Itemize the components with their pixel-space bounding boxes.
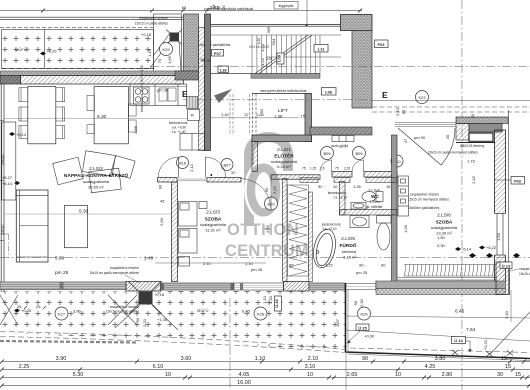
door leaf bedroom6 [398,128,441,165]
terrace top dashed edge [0,27,154,29]
svg-text:függönyfal: függönyfal [279,4,294,8]
svg-text:90: 90 [401,109,406,114]
svg-text:3.80: 3.80 [435,356,446,362]
room label WC [366,188,383,210]
box F03 [375,40,389,48]
room label SZOBA3 [200,210,227,233]
box L11 [314,45,328,53]
svg-text:16.00: 16.00 [237,380,251,386]
svg-text:R: R [191,113,194,118]
svg-text:90: 90 [318,184,323,189]
svg-text:osztó-gyűjtő: osztó-gyűjtő [331,144,348,148]
dim row 1 [2,361,530,363]
svg-text:10: 10 [165,372,171,378]
svg-text:1,10: 1,10 [245,261,254,266]
svg-text:-6,14: -6,14 [462,247,472,252]
door arc B10 bedroom3 [240,179,271,210]
kitchen counter top [130,84,187,106]
svg-text:2,30: 2,30 [437,243,446,248]
svg-text:F07: F07 [214,51,222,56]
washbasin WC [351,203,366,210]
osztó-gyűjtő box [332,136,354,142]
svg-text:Ø80/125 kémény: Ø80/125 kémény [460,144,485,148]
svg-text:75: 75 [335,167,339,171]
chimney niche [469,133,493,142]
ceiling line living [4,117,188,119]
door leaf B07 [204,157,206,178]
svg-text:kerámia burk.: kerámia burk. [169,121,188,125]
svg-text:2.10: 2.10 [308,356,319,362]
svg-text:70: 70 [157,58,162,63]
svg-text:3,86: 3,86 [73,309,82,314]
circle B09 right [353,147,366,160]
svg-text:1,35 m²: 1,35 m² [370,200,381,204]
svg-text:+0,30: +0,30 [364,334,375,339]
door threshold lines living [177,179,207,181]
svg-text:+6,14: +6,14 [2,181,13,186]
level +6,14 left [9,132,15,136]
dim row 2 [2,369,530,371]
stair arrow wedge [214,89,232,103]
svg-text:1,50: 1,50 [496,232,501,241]
svg-text:2.LS/3: 2.LS/3 [206,210,220,216]
svg-text:19 x 16 = 3,07: 19 x 16 = 3,07 [249,45,270,49]
leader line to F02 [495,179,512,181]
box U16 rotated [274,296,282,311]
svg-text:2.LS/4: 2.LS/4 [368,188,380,193]
WC top wall segments [300,178,318,183]
svg-text:20: 20 [202,59,206,63]
wall stipple column kitchen top [184,14,199,73]
leader U14 arrow [466,341,471,351]
svg-text:6,30 m²: 6,30 m² [277,164,291,169]
svg-text:1,50: 1,50 [437,235,446,240]
stair break line [255,35,312,74]
dim line 7,64 [346,330,530,341]
stair top double line [211,25,341,27]
svg-text:1,40: 1,40 [221,112,230,117]
dark X block south [128,281,162,314]
wall hatch strip [199,28,205,151]
svg-text:34,55 m²: 34,55 m² [88,185,104,190]
svg-text:1,00: 1,00 [403,224,408,233]
gray band south bedroom6 [376,281,506,289]
terrace dotted area bottom [0,291,346,352]
stair top-right stipple block [341,15,373,31]
wardrobe bedroom6 [398,176,409,216]
room label SZOBA6 [431,213,458,236]
railing terrace east [404,265,496,277]
svg-text:31º: 31º [231,171,237,175]
svg-text:15x15 cm padló-mennyezet áttör: 15x15 cm padló-mennyezet áttörés [89,271,139,275]
svg-text:csapad: csapad [519,267,530,271]
svg-text:a.k. +0,90: a.k. +0,90 [172,126,186,130]
window right bedroom6 white gap [494,214,506,256]
svg-text:Ü 15: Ü 15 [358,325,367,330]
dashed shaft verticals [230,94,250,135]
sink [159,88,176,101]
box L06 [322,88,337,96]
stair right stipple wall [352,31,372,109]
svg-text:2.LS/2: 2.LS/2 [89,166,103,172]
svg-text:5.96: 5.96 [55,256,65,262]
svg-text:1,10: 1,10 [262,295,267,304]
dim row 3 [2,377,530,379]
svg-text:MŰFŰ: MŰFŰ [15,47,27,52]
armchair rot 2 [82,151,115,176]
toilet bath [377,216,392,251]
dense dashed band left [0,341,137,343]
svg-text:1,15: 1,15 [147,48,152,57]
window band bath [309,283,345,290]
x marks on edge [452,350,513,357]
svg-text:2,56: 2,56 [265,224,270,233]
bathtub [310,227,339,270]
bed3 a [179,202,198,227]
svg-text:45: 45 [217,6,221,10]
svg-text:csapadékvíz részére: csapadékvíz részére [410,193,439,197]
leader csapadekviz [125,275,140,283]
boiler box R [188,110,200,121]
bed3 b [179,229,198,254]
armchair rot 4 [111,156,135,179]
WC left wall [340,182,346,216]
upper-right overhang dashed lines [372,101,530,113]
crosshatch band south bedroom6 [376,289,506,295]
svg-text:20x20 cm padló-mennyezet áttör: 20x20 cm padló-mennyezet áttörés [428,151,478,155]
svg-text:B09: B09 [355,151,363,156]
door arc B07 [205,157,226,178]
window right bedroom6 [495,214,506,256]
right wall outer line [508,110,510,294]
svg-text:pm 25: pm 25 [356,270,368,275]
svg-text:1.49: 1.49 [144,256,154,262]
svg-text:K27: K27 [58,311,66,316]
svg-text:2,86: 2,86 [133,125,138,134]
svg-text:F02: F02 [514,179,522,184]
section line E-E [183,99,372,101]
wall hatch block sw [126,282,161,292]
bed3/bath divider wall [283,179,288,282]
right exterior wall hatch [495,130,506,282]
sideboard left wall [2,122,16,200]
niche bottom line [456,142,495,144]
top-right wall gray band [469,124,502,133]
svg-text:pm 30: pm 30 [157,88,169,93]
box L18 [218,66,229,73]
bowtie levels row se [469,253,476,258]
bath faucet [316,251,319,254]
watermark arch C [244,132,293,226]
svg-text:3.60: 3.60 [181,356,192,362]
svg-text:5.30: 5.30 [79,209,89,215]
window glazing top bedroom6 [395,123,456,127]
top wall hatch band living [21,76,184,85]
centerline vertical x346 low [345,352,347,390]
svg-text:65: 65 [182,5,187,10]
svg-text:15x60cm padlóáttörés: 15x60cm padlóáttörés [408,206,440,210]
svg-text:K23: K23 [418,95,426,100]
stair treads [211,35,341,74]
svg-text:szalagparketta: szalagparketta [83,179,110,184]
door arc B16 [158,157,179,178]
wall hatch block bath-left [284,282,310,292]
door arc B09 right [352,160,364,172]
svg-text:csapadékvíz részére: csapadékvíz részére [110,305,139,309]
svg-text:11,91 m²: 11,91 m² [205,228,221,233]
circle B10 bedroom3 [265,197,278,210]
svg-text:90: 90 [264,187,269,192]
svg-text:1.15: 1.15 [467,159,476,164]
roof drain block with X [166,30,182,45]
box U14 [452,337,466,344]
top dimension line [0,10,362,12]
svg-text:2,40: 2,40 [504,310,509,319]
chairs table2 left [87,95,94,133]
svg-text:15: 15 [505,364,511,370]
svg-text:45: 45 [160,199,165,204]
svg-text:OTTHON: OTTHON [227,221,299,239]
svg-text:+1,05: +1,05 [157,317,168,322]
svg-text:+6,22: +6,22 [486,245,497,250]
svg-text:365: 365 [266,26,271,33]
svg-text:3.10: 3.10 [305,364,316,370]
watermark OC Otthon Centrum [225,132,309,260]
svg-text:4.25: 4.25 [425,364,436,370]
wall hatch block bath-right [376,282,398,292]
svg-text:+0,21: +0,21 [483,339,488,350]
circle K29 [160,43,173,56]
level +6,14 bedroom6 [455,247,461,251]
svg-text:15x15-c: 15x15-c [519,272,530,276]
level mark +6,26 [40,52,46,56]
level +6,22 bedroom6 [479,246,485,250]
svg-text:Ü.13: Ü.13 [502,263,511,268]
svg-text:20: 20 [222,5,226,9]
svg-text:pm 25: pm 25 [55,270,69,276]
svg-text:+0,25: +0,25 [21,308,32,313]
svg-text:L09: L09 [277,54,282,62]
svg-text:2,12: 2,12 [272,185,277,194]
box F07 [212,50,224,57]
svg-text:6,15 m²: 6,15 m² [343,255,357,260]
dim line 1,40 [211,117,299,119]
svg-text:10: 10 [307,372,313,378]
svg-text:L11: L11 [318,47,325,52]
chairs table1 right [56,88,65,139]
extension line fuggonyfal [306,0,308,25]
bath left wall strip [309,192,313,282]
svg-text:kerámia burk.: kerámia burk. [322,223,341,227]
box F02 [511,177,525,185]
washbasin bath [350,216,369,228]
toilet WC [362,192,383,202]
svg-text:+0,18: +0,18 [141,32,152,37]
svg-text:10: 10 [333,184,338,189]
svg-text:kerámia burk. a.k.+0,90 f.a.+1: kerámia burk. a.k.+0,90 f.a.+1,40 [140,65,144,112]
svg-text:90: 90 [135,317,140,322]
top-right wall stipple band [456,117,508,124]
chimney hatch block [456,124,469,141]
brace sw corner [0,295,18,325]
svg-text:15: 15 [301,114,306,119]
svg-text:2.LS/5: 2.LS/5 [341,236,355,242]
door arc B09 left [320,160,332,172]
svg-text:20: 20 [207,59,211,63]
circle B09 left [321,147,334,160]
small dresser [199,202,207,209]
svg-text:2,30: 2,30 [359,298,364,307]
svg-text:+6,26: +6,26 [47,49,58,54]
svg-text:2.LS/1: 2.LS/1 [277,147,291,153]
svg-text:Ü 14: Ü 14 [454,338,463,343]
sofa wardrobe block [16,190,48,262]
WC bottom wall [340,210,398,216]
svg-text:2,12: 2,12 [189,163,194,172]
terrace right thick edge [346,283,530,359]
svg-text:10: 10 [395,372,401,378]
circle K26 b [358,307,371,320]
svg-text:2.80: 2.80 [442,372,453,378]
svg-text:B09: B09 [323,151,331,156]
svg-text:FÜRDŐ: FÜRDŐ [339,242,356,249]
vertical ext line 2,40 [510,290,512,322]
svg-text:47: 47 [403,138,408,143]
svg-text:+6,14: +6,14 [16,132,27,137]
svg-text:pm 90: pm 90 [414,135,426,140]
top wall dark corner [0,76,21,85]
svg-text:15x15 cm padló áttörés: 15x15 cm padló áttörés [135,22,169,26]
dim row 4 [2,385,530,387]
svg-text:szalagparketta: szalagparketta [200,222,227,227]
top wall dark block at kitchen [175,71,199,80]
svg-text:B10: B10 [267,201,275,206]
svg-text:mennyezet áttörés tetőkibúvóna: mennyezet áttörés tetőkibúvónak [260,89,307,93]
svg-text:f.a. +1,40: f.a. +1,40 [172,130,186,134]
svg-text:75: 75 [302,167,306,171]
svg-text:1,26: 1,26 [353,184,362,189]
svg-text:F03: F03 [378,42,386,47]
svg-text:2,30: 2,30 [268,295,273,304]
svg-text:25: 25 [36,304,41,309]
svg-text:szalagparketta: szalagparketta [431,225,458,230]
svg-text:4.05: 4.05 [239,372,250,378]
svg-text:15: 15 [501,356,507,362]
brace diagonal a [150,42,169,68]
svg-text:15: 15 [386,184,391,189]
svg-text:kerámia: kerámia [342,249,357,254]
lift shaft [252,94,312,142]
hallway bottom wall segments [158,172,398,183]
bath right wall [392,135,398,282]
circle B10 bedroom6 [391,155,403,167]
circle K23 [416,91,429,104]
svg-text:3.90: 3.90 [56,356,67,362]
svg-text:90: 90 [359,263,364,268]
dim line bed3 bottom [155,262,266,264]
svg-text:MŰFŰ: MŰFŰ [197,308,209,313]
room label ELOTER [271,147,298,169]
box L09 vertical [277,53,285,64]
svg-text:L06: L06 [325,90,333,95]
svg-text:2.65: 2.65 [347,372,358,378]
terrace edge companion lines [348,290,530,361]
terrace muifu top-left [2,30,154,69]
svg-text:K26: K26 [257,311,265,316]
terrace dotted fill [2,30,154,69]
nightstand3 [179,257,190,267]
threshold door terrace [345,284,376,290]
centerline vertical x230 [229,298,231,390]
centerline living bottom [0,257,530,259]
top dim ticks [41,9,362,13]
brace diagonal c [154,33,170,55]
leader U15 arrow [347,331,360,343]
svg-text:65: 65 [289,263,294,268]
svg-text:E: E [382,90,388,100]
dash corner left [0,234,9,258]
svg-text:+0,18: +0,18 [154,292,165,297]
svg-text:pm 45: pm 45 [251,267,263,272]
svg-text:7,64: 7,64 [466,327,476,333]
svg-text:4,25: 4,25 [260,57,265,66]
svg-text:f.a. +2,10: f.a. +2,10 [323,227,337,231]
box U13 [500,262,512,269]
svg-text:K29: K29 [162,47,170,52]
svg-text:2,10: 2,10 [203,261,212,266]
circle B16 [177,157,189,169]
south face line bedroom6 [398,278,498,281]
bedroom3 left wall [172,182,178,282]
svg-text:1,65: 1,65 [167,55,172,64]
fuggonyfal label box [274,2,298,10]
svg-text:2.25: 2.25 [19,364,30,370]
left exterior glass wall [0,76,4,292]
svg-text:K26: K26 [360,311,368,316]
wall dark kitchen-stair [205,14,211,151]
circle B07 [221,159,233,171]
hatch end block se [496,262,510,295]
window band living south [0,282,126,290]
svg-text:30: 30 [445,134,450,139]
svg-text:30: 30 [497,372,503,378]
svg-text:90: 90 [362,356,368,362]
armchair rot 3 [89,168,121,192]
svg-text:90: 90 [158,184,163,189]
stove [134,87,150,104]
stair bottom gray band [251,74,320,79]
radiator kitchen [187,97,198,109]
window band bedroom3 [161,283,235,290]
svg-text:B16: B16 [179,160,187,165]
svg-text:15: 15 [212,4,216,8]
room label NAPPALI [64,166,128,190]
svg-text:kerámia burk.: kerámia burk. [328,191,347,195]
dining table 1 [28,87,56,144]
radiator shaft zigzag [288,185,309,276]
watermark letter O halo [251,168,276,213]
svg-text:12: 12 [244,112,249,117]
svg-text:1,25: 1,25 [310,167,316,171]
svg-text:5.30: 5.30 [73,372,84,378]
watermark letter O [251,168,276,213]
svg-text:1,65: 1,65 [256,112,265,117]
dim line 6.45 [346,316,530,318]
svg-text:L18: L18 [220,67,228,72]
svg-text:15: 15 [515,372,521,378]
circle K27 [55,307,68,320]
level +0,25 [14,309,20,313]
